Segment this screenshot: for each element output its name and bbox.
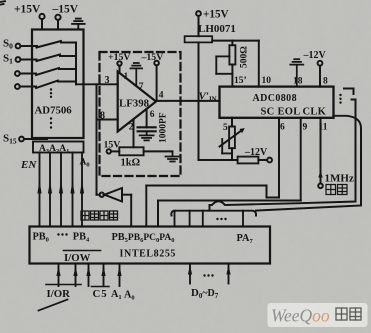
inverter (sample control buffer) (100, 188, 122, 202)
svg-text:500Ω: 500Ω (240, 46, 250, 68)
svg-text:1MHz: 1MHz (325, 173, 354, 185)
control stub CS (86, 264, 90, 287)
svg-text:I/OW: I/OW (64, 252, 91, 264)
control stub IOW (73, 264, 77, 287)
svg-text:EN: EN (20, 159, 37, 171)
svg-text:7: 7 (139, 82, 144, 92)
svg-text:AD7506: AD7506 (35, 105, 73, 117)
address wire A3 (48, 153, 52, 227)
data bus wire upper (210, 100, 356, 211)
wire VIN node down to offset network (199, 159, 238, 161)
address latch box A3A2A1 (33, 142, 84, 153)
svg-text:INTEL8255: INTEL8255 (120, 249, 177, 260)
node S0 input terminal (16, 44, 37, 49)
watermark CJK glyphs (336, 308, 361, 320)
address wire A2 (59, 153, 63, 227)
wire SC: PB6 to ADC pin 6 (146, 118, 279, 227)
PA stub wires (175, 211, 244, 227)
control stub A1 (101, 264, 105, 287)
distribution bar (171, 211, 256, 216)
svg-text:4: 4 (159, 91, 164, 101)
node S2 input terminal (15, 71, 36, 76)
potentiometer 500 ohm (229, 41, 235, 87)
control stub A0 (117, 264, 121, 287)
data bus D7 stub (226, 264, 230, 284)
svg-text:EOL: EOL (278, 107, 301, 118)
svg-text:–15V: –15V (52, 4, 79, 16)
switch contact S0 (61, 42, 76, 44)
wire EOC: PC0 to ADC pin 9 (158, 118, 301, 227)
svg-text:9: 9 (303, 123, 308, 133)
PA stub dots (216, 218, 226, 220)
ground (1k resistor) (166, 151, 180, 161)
svg-text:1kΩ: 1kΩ (121, 158, 141, 169)
svg-text:–12V: –12V (244, 147, 268, 158)
wire LH0071 output to ADC pin 10 (212, 41, 259, 87)
svg-text:15V: 15V (104, 140, 121, 151)
svg-text:CLK: CLK (303, 107, 327, 118)
resistor 1k ohm (119, 147, 143, 155)
wire inverter output to pin-8 net (97, 194, 100, 196)
ground (hold capacitor) (140, 131, 154, 140)
svg-text:6: 6 (280, 123, 285, 133)
node S3 input terminal (15, 84, 36, 89)
wire pin 2 to resistor (133, 119, 135, 147)
svg-text:+15V: +15V (14, 4, 41, 16)
svg-text:1: 1 (124, 72, 129, 82)
500 ohm wiper link (216, 56, 232, 73)
I/O interface INTEL8255 (30, 227, 271, 264)
op-amp LF398 (118, 72, 156, 132)
node S15 input terminal (19, 137, 47, 142)
I/OW label with overline (64, 250, 101, 252)
svg-text:18: 18 (293, 77, 303, 87)
ground (ADC pin 18) (290, 59, 303, 86)
data bus dots (203, 274, 213, 276)
switch contact S3 (58, 81, 76, 83)
-15V terminal (LF398) (154, 61, 159, 101)
watermark (268, 303, 368, 327)
clock (shizhong) label glyphs (326, 185, 347, 195)
dots (more channels) (50, 88, 52, 98)
wire inverter input to PB5 (122, 195, 131, 227)
offset trimmer (ADC pin 5) (229, 118, 235, 160)
+15V supply terminal (AD7506) (39, 14, 44, 30)
switch contact S2 (59, 68, 76, 70)
wire sample control vertical (96, 84, 98, 194)
svg-text:SC: SC (261, 107, 275, 118)
I/OR label with overline (46, 284, 81, 286)
pin 6 stub (146, 109, 148, 127)
address wire A0 (80, 153, 84, 227)
data output dots (339, 94, 341, 104)
sample-hold (caiyang baochi) label glyphs (81, 211, 118, 220)
address wire A1 (70, 153, 74, 227)
stray diagonal mark (39, 300, 68, 311)
ground (AD7506 top) (72, 19, 85, 30)
svg-text:–15V: –15V (141, 52, 164, 63)
voltage reference LH0071 +15V terminal (196, 11, 201, 36)
svg-text:ADC0808: ADC0808 (253, 93, 297, 104)
clock input 1MHz (318, 118, 323, 188)
data bus D0 stub (188, 264, 192, 284)
svg-text:WeeQoo: WeeQoo (271, 306, 330, 326)
ADC0808 (220, 87, 334, 118)
wire mux output to LF398 pin 3 (76, 83, 118, 85)
svg-text:5: 5 (223, 123, 228, 133)
svg-text:+15V: +15V (108, 52, 130, 63)
data bus top marker (344, 89, 354, 95)
svg-text:LH0071: LH0071 (198, 23, 236, 35)
svg-text:PB5PB6PC0PA0: PB5PB6PC0PA0 (112, 232, 175, 244)
svg-text:I/OR: I/OR (47, 288, 71, 300)
common output bus (75, 43, 77, 85)
trimmer arrow (220, 128, 245, 146)
svg-text:15’: 15’ (234, 76, 247, 86)
15V terminal (1k resistor) (107, 149, 120, 153)
svg-text:–12V: –12V (303, 50, 327, 61)
svg-text:10: 10 (262, 76, 272, 86)
wire 1k to ground (144, 150, 173, 152)
switch arm S2 (36, 68, 59, 75)
dots (PB ports) (57, 233, 67, 235)
C5 label with overline (92, 286, 110, 288)
dots (more channels, lower) (50, 117, 52, 128)
wire LH0071 down to offset node (198, 42, 200, 160)
switch arm S3 (36, 81, 58, 89)
svg-text:6: 6 (150, 110, 155, 120)
multiplexer AD7506 (32, 30, 84, 139)
svg-text:3: 3 (105, 75, 110, 86)
-12V terminal (ADC pin 8) (318, 61, 323, 87)
wire LF398 output to ADC input (156, 100, 220, 102)
trimmer wiper link (222, 139, 232, 153)
address wire EN (37, 153, 41, 227)
ground (LF398 pin 7) (131, 63, 143, 86)
-15V supply terminal (AD7506) (55, 15, 60, 30)
svg-text:D0~D7: D0~D7 (191, 287, 219, 300)
svg-text:8: 8 (323, 77, 328, 87)
svg-text:1000PF: 1000PF (159, 112, 169, 143)
switch contact S1 (60, 55, 76, 57)
svg-text:LF398: LF398 (119, 98, 150, 110)
voltage reference LH0071 body (185, 36, 213, 42)
hold capacitor 1000PF (138, 127, 156, 131)
wire pin 8 (97, 119, 118, 121)
dashed sample-hold enclosure (100, 52, 181, 176)
data bus wire lower (256, 116, 361, 211)
control stub IOR (56, 264, 60, 287)
svg-text:+15V: +15V (203, 9, 229, 21)
switch arm S1 (37, 55, 61, 62)
resistor to -12V (238, 157, 272, 164)
+15V terminal (LF398 pin 1) (117, 61, 121, 73)
corner scan mark (0, 1, 5, 4)
node S1 input terminal (16, 57, 37, 62)
svg-text:C5: C5 (93, 288, 108, 300)
svg-text:A3A2A1: A3A2A1 (39, 144, 69, 155)
switch arm S0 (37, 41, 62, 48)
